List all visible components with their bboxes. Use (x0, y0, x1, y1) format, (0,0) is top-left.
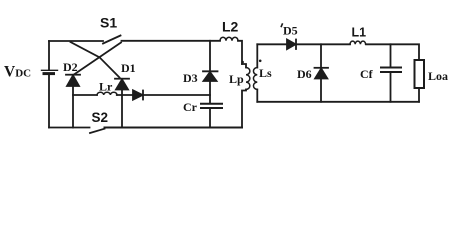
svg-text:S1: S1 (100, 15, 117, 31)
capacitor Cr (201, 104, 222, 108)
svg-text:D2: D2 (63, 60, 78, 74)
load resistor box (415, 60, 425, 88)
inductor L1 (350, 41, 366, 44)
switch S2 blade (90, 129, 105, 133)
svg-text:Cr: Cr (183, 100, 198, 114)
stray tick near D5 (281, 23, 283, 27)
svg-text:VDC: VDC (4, 64, 31, 81)
wire: X diagonal to D1 (71, 42, 120, 78)
svg-text:L2: L2 (222, 19, 239, 35)
wire: top rail L2 to primary corner (238, 41, 242, 64)
wire: top rail left of S1 (49, 40, 103, 42)
wire: Lr to series diode (117, 94, 133, 96)
polarity dot Ls (259, 60, 262, 63)
wire: D5 to L1 (296, 43, 350, 45)
wire: secondary bottom rail (257, 101, 419, 103)
wire: L1 to load corner (366, 44, 419, 60)
svg-text:D5: D5 (283, 24, 298, 38)
inductor Lr (97, 92, 117, 95)
wire: resonant row from D2 (73, 94, 97, 96)
diode D2 (66, 75, 80, 86)
diode D1 (115, 79, 129, 90)
wire: top rail S1 to L2 (122, 40, 221, 42)
svg-text:Cf: Cf (360, 67, 374, 81)
wire: bottom rail S2 to primary bottom (105, 127, 243, 129)
wire: secondary top rail to D5 (257, 43, 287, 45)
series diode (after D1 node) (133, 90, 143, 99)
svg-text:D3: D3 (183, 71, 198, 85)
svg-text:Lr: Lr (99, 80, 113, 94)
svg-text:L1: L1 (352, 26, 367, 40)
svg-text:Ls: Ls (259, 66, 272, 80)
transformer secondary winding Ls (253, 44, 257, 102)
wire: Cr to bottom rail (209, 109, 211, 128)
svg-text:Lp: Lp (229, 72, 244, 86)
inductor L2 (220, 37, 238, 41)
wire: D3 to Cr (209, 81, 211, 103)
battery VDC (42, 70, 58, 73)
polarity dot Lp (241, 61, 244, 64)
svg-text:S2: S2 (92, 110, 109, 125)
transformer primary winding Lp (242, 64, 250, 128)
svg-text:D6: D6 (297, 67, 312, 81)
wire: series diode to Cr column (144, 94, 211, 96)
wire: load bottom (418, 88, 420, 102)
switch S1 blade (103, 36, 121, 44)
svg-text:Loa: Loa (428, 69, 448, 83)
wire: left vertical (source branch) (48, 41, 50, 128)
svg-text:D1: D1 (121, 61, 136, 75)
diode D6 (315, 44, 329, 102)
capacitor Cf (381, 44, 401, 102)
diode D3 (203, 71, 218, 81)
wire: D2 down to bottom rail (72, 86, 74, 128)
wire: X diagonal to D2 (74, 43, 121, 75)
wire: D3/Cr column top (209, 41, 211, 71)
wire: bottom rail left of S2 (49, 127, 90, 129)
diode D5 (287, 40, 296, 50)
wire: D1 down to bottom rail (121, 90, 123, 128)
